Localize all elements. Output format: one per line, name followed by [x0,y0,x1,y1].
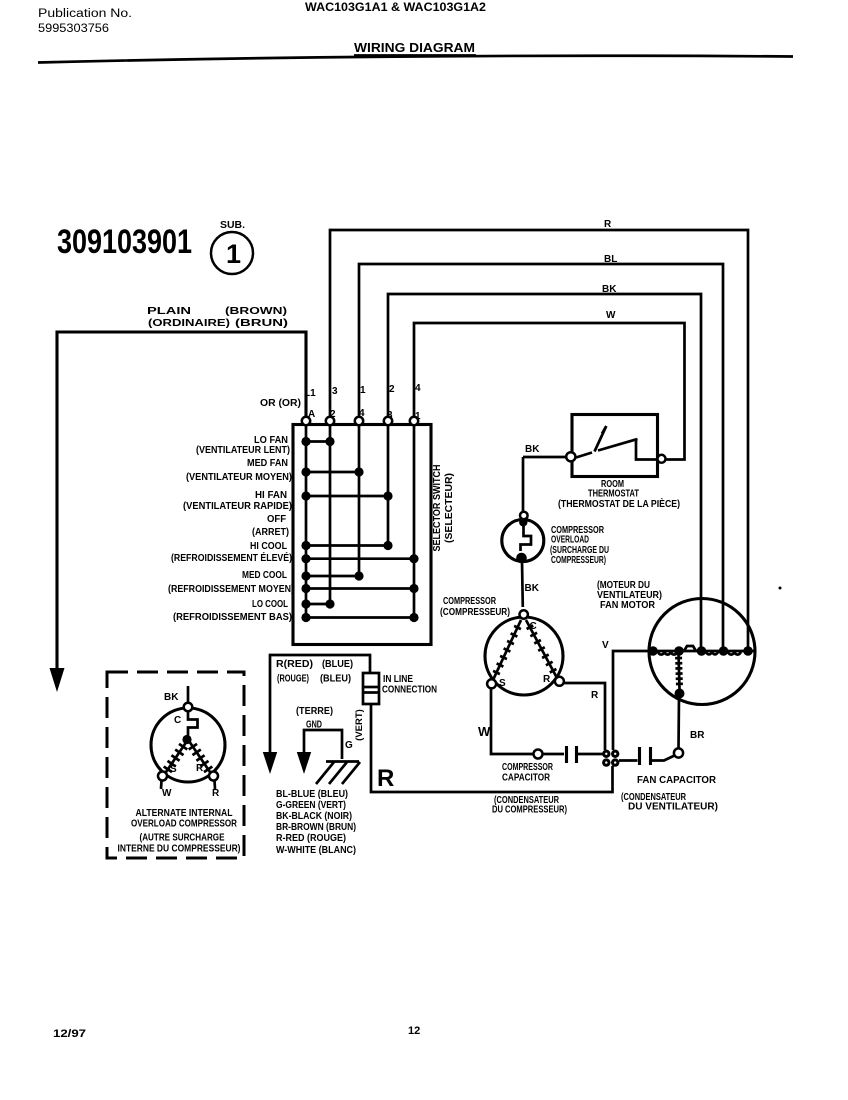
svg-text:COMPRESSOR: COMPRESSOR [502,762,554,773]
svg-text:HI FAN: HI FAN [255,490,287,501]
svg-text:COMPRESSOR: COMPRESSOR [443,596,497,607]
alternate internal overload step [188,711,198,736]
svg-text:(BRUN): (BRUN) [235,318,288,329]
svg-text:SUB.: SUB. [220,220,245,231]
selector row HI FAN [306,495,388,498]
alternate center junction dot [182,735,191,744]
wire capacitor terminal to plates [543,753,565,756]
selector internal vertical 1 (terminal A) [305,424,308,618]
svg-text:BK: BK [525,444,540,455]
selector row LO COOL b [306,616,414,619]
selector internal vertical 3 [358,424,361,576]
svg-text:PLAIN: PLAIN [147,306,191,317]
svg-text:R-RED (ROUGE): R-RED (ROUGE) [276,833,346,844]
selector row HI COOL b [306,557,414,560]
svg-text:INTERNE DU COMPRESSEUR): INTERNE DU COMPRESSEUR) [118,844,241,855]
wire start winding to BR terminal [677,695,680,749]
svg-text:(BLUE): (BLUE) [322,659,353,670]
alternate W stub [160,781,163,790]
svg-text:12: 12 [408,1025,420,1037]
svg-text:(REFROIDISSEMENT BAS): (REFROIDISSEMENT BAS) [173,612,292,623]
svg-text:WAC103G1A1 & WAC103G1A2: WAC103G1A1 & WAC103G1A2 [305,2,486,14]
fan motor start winding [679,653,680,689]
wire BL: terminal 4 up, across, down to fan motor [359,264,723,648]
selector row HI COOL a [306,544,388,547]
sub revision circle 1 [211,232,253,274]
fan capacitor C2 plates [638,747,641,765]
svg-text:ALTERNATE INTERNAL: ALTERNATE INTERNAL [136,808,233,819]
selector internal vertical 4 [387,424,390,546]
compressor capacitor C1 plates [565,746,568,763]
svg-text:C: C [174,715,181,726]
svg-text:(REFROIDISSEMENT MOYEN): (REFROIDISSEMENT MOYEN) [168,584,294,595]
thermostat fixed contact step [636,439,658,460]
wire R: terminal 2 up, across top, down to fan motor [330,230,748,648]
svg-text:BL-BLUE (BLEU): BL-BLUE (BLEU) [276,789,348,800]
in-line connection F1 [363,673,379,704]
svg-text:(COMPRESSEUR): (COMPRESSEUR) [440,607,510,618]
speck [779,587,782,590]
thermostat box U1 [572,415,658,477]
svg-text:BK: BK [602,284,617,295]
svg-text:FAN CAPACITOR: FAN CAPACITOR [637,775,717,786]
svg-text:CAPACITOR: CAPACITOR [502,773,551,784]
svg-text:BR-BROWN (BRUN): BR-BROWN (BRUN) [276,822,356,833]
svg-text:BK: BK [525,583,540,594]
selector switch box [293,425,431,645]
svg-text:(THERMOSTAT DE LA PIÈCE): (THERMOSTAT DE LA PIÈCE) [558,497,680,510]
overload upper junction dot [519,518,527,526]
selector internal vertical 5 [413,424,416,618]
wire fan capacitor to BR terminal [652,756,675,761]
junction cluster node [602,750,610,758]
wire BK overload to compressor [521,561,524,607]
wire capacitor to junction cluster [578,753,604,756]
wire BK stub alternate [187,686,190,703]
svg-text:R: R [591,690,599,701]
compressor terminal S [487,679,496,688]
svg-text:LO COOL: LO COOL [252,599,288,610]
svg-text:OFF: OFF [267,514,286,525]
svg-text:R(RED): R(RED) [276,659,313,670]
svg-text:DU COMPRESSEUR): DU COMPRESSEUR) [492,805,567,816]
wire power lead R(RED)/(BLUE) with arrow [270,655,370,752]
alternate winding to R [189,741,212,775]
svg-text:R: R [604,219,612,230]
selector row MED COOL a [306,575,359,578]
wire W: terminal 1 up, across, down to thermostat [414,323,685,460]
svg-text:3: 3 [332,386,338,397]
alternate top terminal [184,703,193,712]
thermostat switch blade contact diagonal [576,439,638,458]
svg-text:IN LINE: IN LINE [383,674,413,685]
arrowhead left power lead [50,668,65,692]
overload bottom junction dot [516,553,527,564]
svg-text:(ARRET): (ARRET) [252,527,289,538]
svg-text:(BLEU): (BLEU) [320,674,351,685]
thermostat right terminal [658,455,666,463]
svg-text:G-GREEN (VERT): G-GREEN (VERT) [276,800,346,811]
selector terminals A 2 4 3 1 [302,417,310,425]
fan motor tap dots [648,646,658,656]
wire cluster to fan capacitor [619,759,638,762]
wire R bus cluster to in-line connection [371,704,613,792]
svg-text:(SELECTEUR): (SELECTEUR) [444,473,455,543]
header rule [38,56,793,63]
svg-text:(BROWN): (BROWN) [225,306,287,317]
svg-text:COMPRESSEUR): COMPRESSEUR) [551,555,606,566]
svg-text:(ORDINAIRE): (ORDINAIRE) [148,318,230,329]
svg-text:L1: L1 [304,388,316,399]
wire L1 plain: horizontal run, left drop [57,332,306,668]
compressor circle M1 [485,617,563,695]
wire W compressor S to capacitor [491,688,533,754]
alternate terminal S [158,772,167,781]
alternate winding to S [164,741,187,775]
svg-text:W: W [478,724,491,739]
thermostat switch blade [595,426,607,452]
alternate R stub [213,781,216,790]
wire thermostat to overload [522,457,525,512]
svg-text:S: S [499,678,506,689]
svg-text:(VERT): (VERT) [354,709,365,741]
svg-text:(VENTILATEUR LENT): (VENTILATEUR LENT) [196,445,290,456]
compressor winding C-R [526,620,557,678]
svg-text:(REFROIDISSEMENT ÉLEVÉ): (REFROIDISSEMENT ÉLEVÉ) [171,551,292,564]
svg-text:(VENTILATEUR RAPIDE): (VENTILATEUR RAPIDE) [183,501,292,512]
svg-text:309103901: 309103901 [57,223,192,261]
svg-text:BR: BR [690,730,705,741]
alternate terminal R [209,772,218,781]
alternate compressor circle [151,708,225,782]
svg-text:(VENTILATEUR MOYEN): (VENTILATEUR MOYEN) [186,472,292,483]
thermostat left terminal [566,452,575,461]
fan start junction dot [675,689,685,699]
arrowhead ground lead [297,752,311,774]
compressor winding C-S [493,620,521,680]
svg-text:Publication No.: Publication No. [38,8,132,20]
svg-text:WIRING DIAGRAM: WIRING DIAGRAM [354,41,475,55]
wire BK: terminal 3 up, across, down to fan motor [388,294,701,648]
svg-text:OR (OR): OR (OR) [260,398,301,409]
svg-text:SELECTOR SWITCH: SELECTOR SWITCH [432,465,443,552]
svg-text:G: G [345,740,353,751]
svg-text:R: R [377,765,394,792]
ground symbol [316,762,360,785]
wire R compressor R terminal to junction cluster [563,683,605,750]
selector row LO COOL a [306,603,330,606]
svg-text:(ROUGE): (ROUGE) [277,674,309,685]
overload top terminal [520,512,528,520]
fan motor main winding line [649,650,754,653]
svg-text:GND: GND [306,720,322,731]
selector row MED COOL b [306,587,414,590]
svg-text:S: S [170,764,177,775]
svg-text:(TERRE): (TERRE) [296,706,333,717]
svg-text:FAN MOTOR: FAN MOTOR [600,600,656,611]
selector row LO FAN [306,440,330,443]
svg-text:W: W [606,310,616,321]
svg-text:12/97: 12/97 [53,1028,86,1040]
compressor overload circle [502,520,544,562]
overload internal step element [521,522,532,551]
svg-text:THERMOSTAT: THERMOSTAT [588,489,639,500]
wire BK thermostat to selector side [523,456,566,459]
svg-text:2: 2 [389,384,395,395]
svg-text:OVERLOAD COMPRESSOR: OVERLOAD COMPRESSOR [131,819,238,830]
svg-text:OVERLOAD: OVERLOAD [551,535,589,546]
fan BR terminal [674,748,683,757]
compressor top terminal C [520,610,528,618]
svg-text:V: V [602,640,609,651]
svg-text:R: R [212,788,220,799]
wire V fan motor to junction cluster [613,651,648,750]
svg-text:MED FAN: MED FAN [247,458,288,469]
svg-text:CONNECTION: CONNECTION [382,685,437,696]
svg-text:BK: BK [164,692,179,703]
svg-text:1: 1 [226,239,241,269]
svg-text:5995303756: 5995303756 [38,23,109,35]
svg-text:R: R [196,763,204,774]
alternate compressor dashed enclosure [107,672,244,858]
selector row MED FAN [306,471,359,474]
compressor capacitor terminal [534,750,543,759]
svg-text:DU VENTILATEUR): DU VENTILATEUR) [628,802,718,813]
compressor terminal R [555,677,564,686]
selector internal vertical 2 [329,424,332,604]
svg-text:MED COOL: MED COOL [242,570,287,581]
svg-text:W-WHITE (BLANC): W-WHITE (BLANC) [276,845,356,856]
arrowhead power lead 2 [263,752,277,774]
fan motor circle M2 [649,599,755,705]
svg-text:(AUTRE SURCHARGE: (AUTRE SURCHARGE [140,833,225,844]
svg-text:R: R [543,674,551,685]
svg-text:HI COOL: HI COOL [250,541,287,552]
svg-text:BK-BLACK (NOIR): BK-BLACK (NOIR) [276,811,352,822]
wire ground branch [304,730,342,759]
svg-text:BL: BL [604,254,617,265]
svg-text:W: W [162,788,172,799]
fan motor winding bumps [658,646,741,655]
svg-text:4: 4 [415,383,421,394]
svg-text:1: 1 [360,385,366,396]
